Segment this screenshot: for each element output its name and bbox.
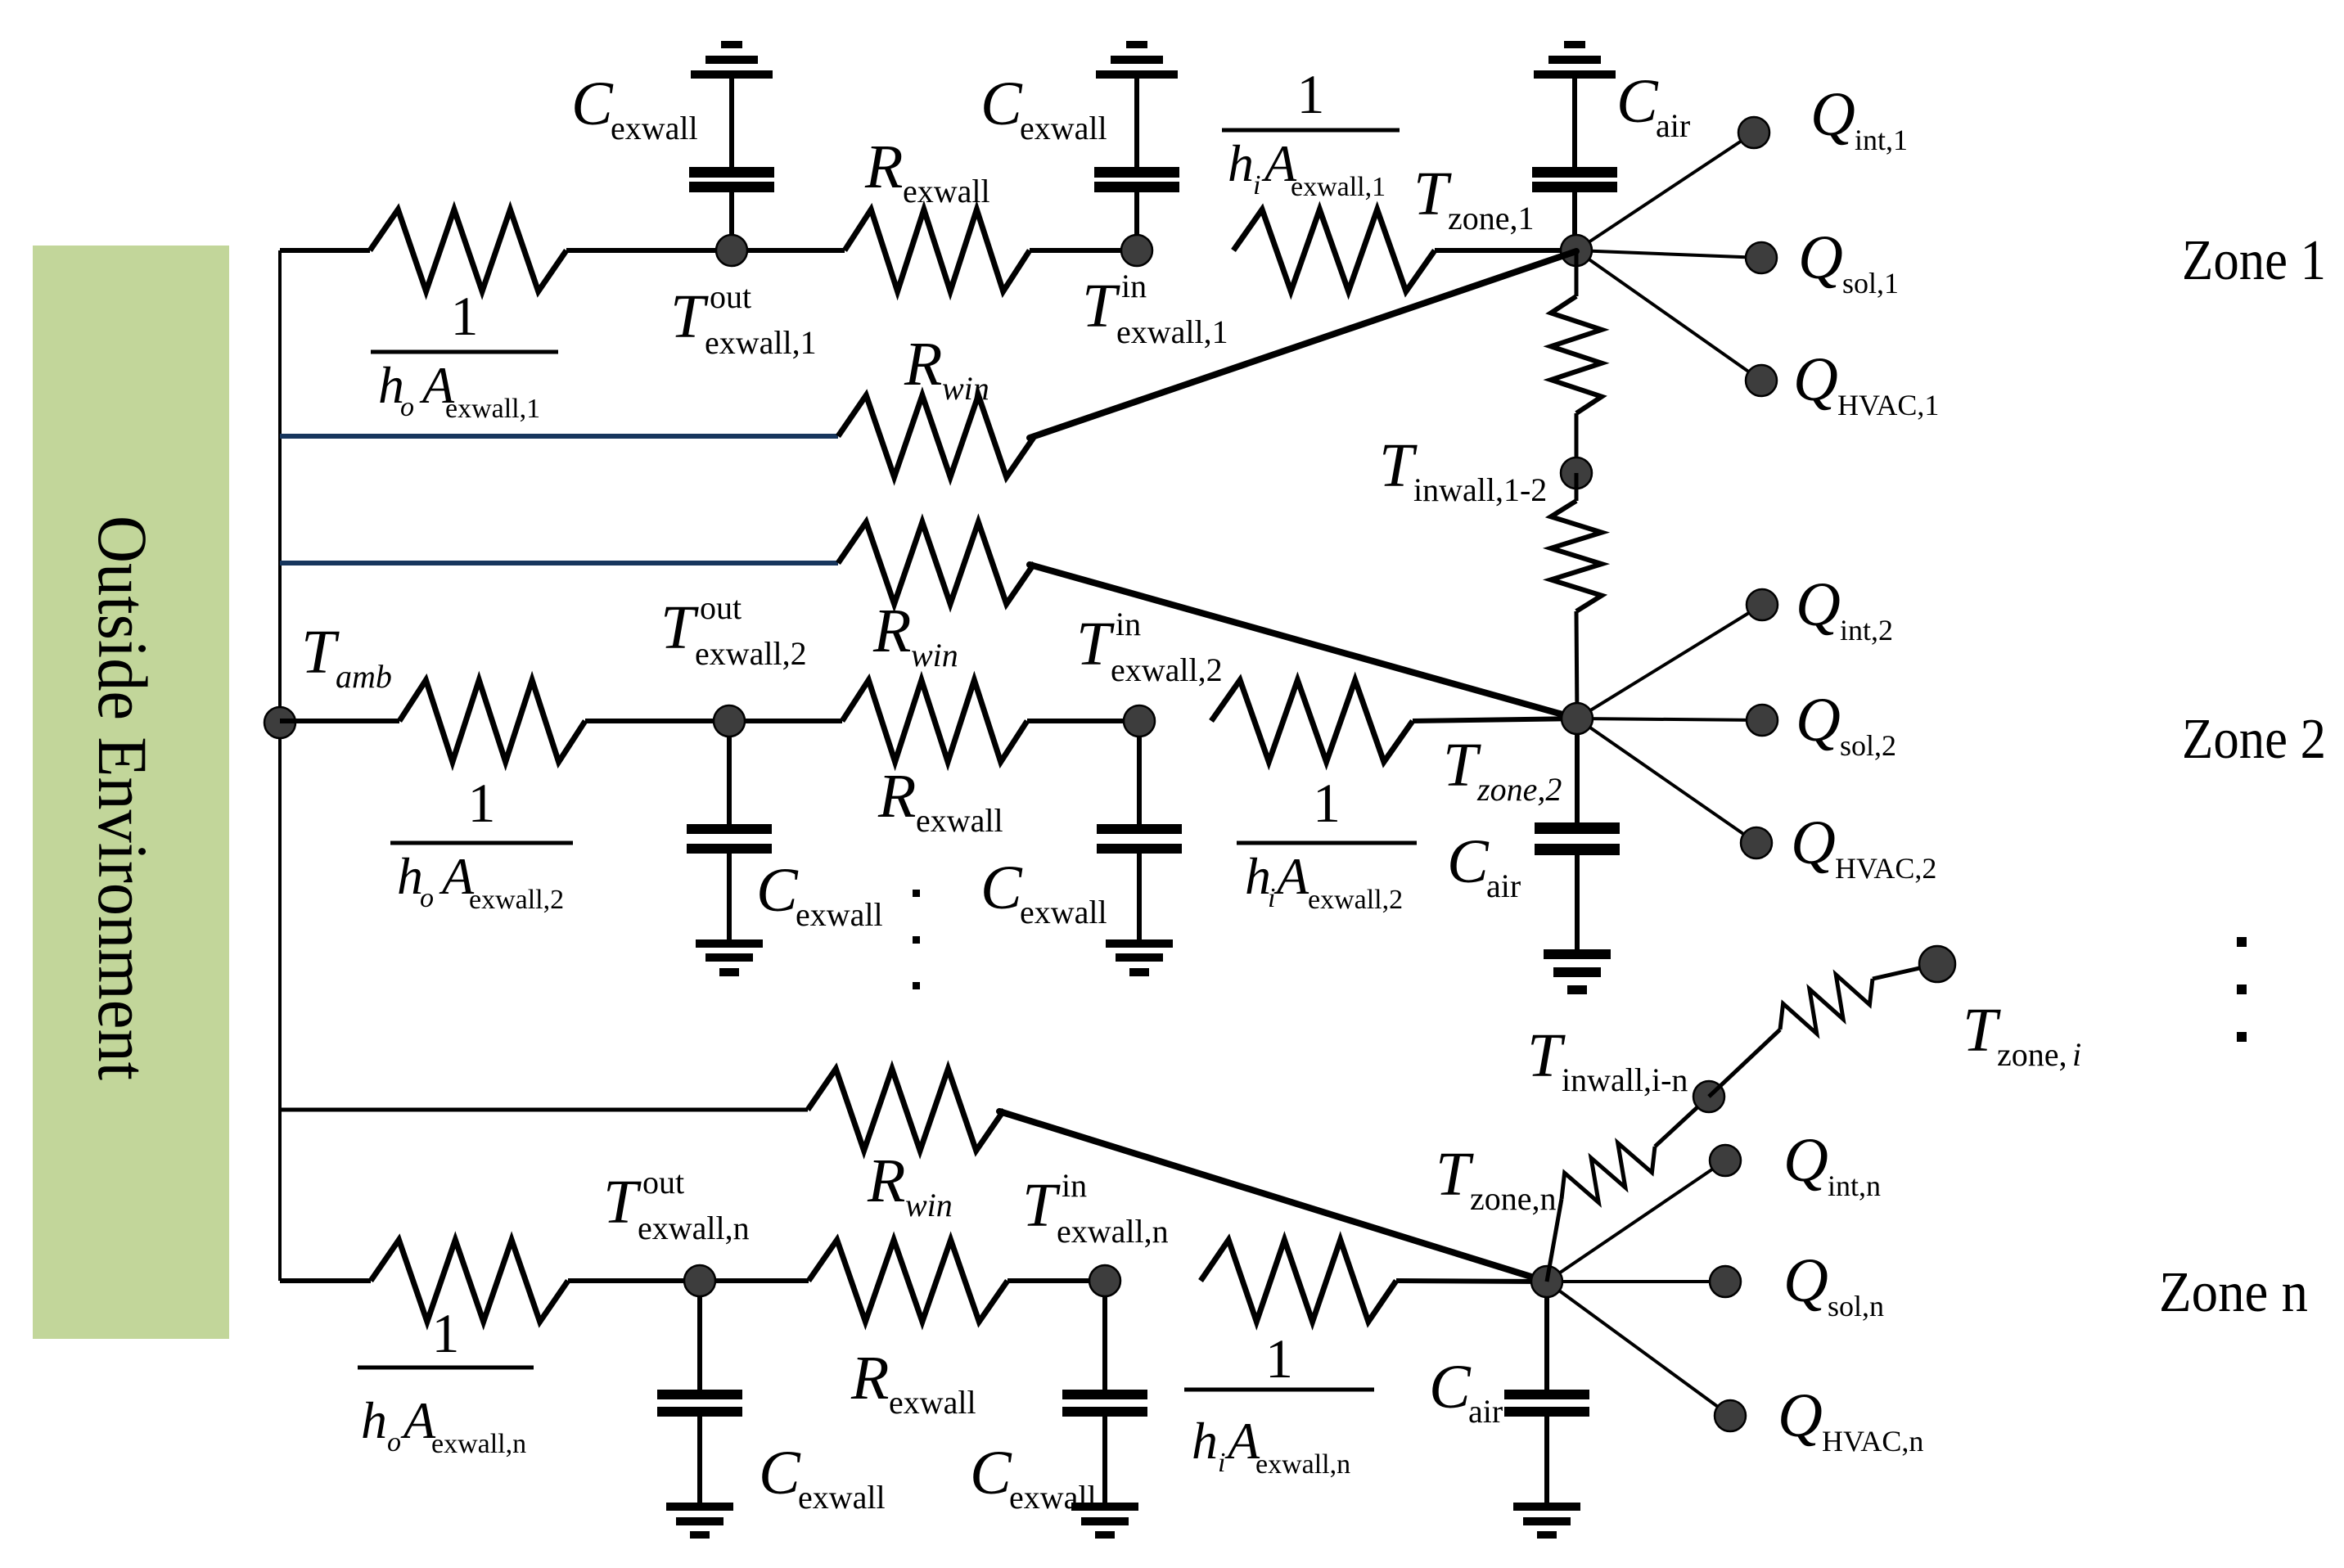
svg-text:out: out (700, 589, 742, 626)
node T_inwall,i-n (1693, 1081, 1724, 1112)
node T_zone,2 (1562, 703, 1593, 734)
resistor R_inwall,i (1780, 975, 1873, 1034)
svg-text:air: air (1656, 107, 1690, 144)
svg-text:h: h (1228, 134, 1254, 192)
outside environment panel (33, 246, 229, 1339)
wire R_inwall,n to node (1655, 1097, 1709, 1147)
label T_exwall,n out (603, 1164, 750, 1246)
label T_exwall,1 in (1082, 268, 1228, 350)
label Zone n (2159, 1261, 2308, 1324)
wire R_win,n to zone n (999, 1111, 1547, 1282)
svg-text:Outside Environment: Outside Environment (83, 516, 162, 1080)
svg-text:T: T (301, 618, 340, 687)
svg-text:inwall,1-2: inwall,1-2 (1413, 471, 1547, 508)
node Q_HVAC,n (1715, 1400, 1746, 1431)
svg-text:C: C (980, 70, 1023, 138)
label Q_sol,n (1783, 1246, 1884, 1322)
resistor 1/hiA,1 (1233, 210, 1435, 291)
resistor 1/hoA,2 (399, 680, 585, 762)
svg-text:R: R (877, 762, 916, 831)
label C_air,2 (1447, 827, 1521, 904)
svg-text:T: T (1413, 160, 1452, 228)
label Q_int,n (1783, 1126, 1881, 1202)
wire to Q_HVAC,1 (1576, 250, 1761, 381)
wire to Q_HVAC,n (1547, 1282, 1730, 1416)
capacitor C_exwall,2b (1097, 721, 1182, 976)
svg-text:T: T (1379, 431, 1418, 500)
label Q_sol,2 (1796, 686, 1896, 762)
svg-text:in: in (1116, 606, 1141, 642)
svg-text:C: C (571, 70, 614, 138)
node T_zone,i (1919, 946, 1955, 982)
outside environment label (83, 516, 162, 1080)
resistor R_inwall,n (1562, 1143, 1655, 1203)
svg-text:HVAC,n: HVAC,n (1822, 1425, 1923, 1458)
wire zone2 a (585, 719, 842, 723)
svg-text:C: C (980, 854, 1023, 922)
svg-text:o: o (420, 883, 434, 913)
svg-text:inwall,i-n: inwall,i-n (1562, 1061, 1688, 1098)
svg-text:T: T (1082, 272, 1120, 340)
label C_air,n (1429, 1353, 1503, 1430)
svg-text:exwall,n: exwall,n (1057, 1213, 1169, 1250)
svg-text:exwall: exwall (798, 1479, 886, 1516)
svg-text:C: C (970, 1439, 1012, 1507)
svg-text:Q: Q (1796, 686, 1841, 755)
svg-text:in: in (1062, 1167, 1087, 1204)
wire inwall down (1576, 473, 1577, 719)
svg-text:1: 1 (1297, 63, 1325, 125)
svg-text:win: win (942, 370, 989, 407)
svg-text:sol,2: sol,2 (1840, 729, 1896, 762)
label 1/hiA,n (1184, 1327, 1374, 1480)
resistor 1/hoA,1 (370, 210, 566, 291)
wire R_win,1 feed (280, 434, 838, 439)
wire zone-n a (568, 1278, 809, 1283)
svg-text:T: T (1443, 731, 1481, 800)
capacitor C_exwall,2a (687, 721, 772, 976)
label T_zone,n (1436, 1140, 1557, 1217)
svg-text:C: C (756, 856, 799, 925)
label T_amb (301, 618, 392, 695)
node Q_int,n (1710, 1145, 1741, 1176)
wire zone2 b (1027, 719, 1139, 723)
label T_inwall,1-2 (1379, 431, 1547, 508)
capacitor C_air,2 (1535, 719, 1620, 994)
wire R_inwall,i to zone i (1873, 964, 1937, 979)
wire zone-n left (280, 1278, 371, 1283)
wire zone1 b (1030, 248, 1137, 253)
svg-text:Q: Q (1778, 1381, 1823, 1450)
resistor 1/hiA,n (1201, 1240, 1396, 1322)
wire zone2 c (1413, 719, 1577, 721)
svg-text:Q: Q (1783, 1126, 1828, 1195)
svg-text:exwall: exwall (1020, 894, 1107, 930)
resistor R_exwall,n (809, 1240, 1007, 1322)
wire to Q_int,n (1547, 1160, 1725, 1282)
node Q_HVAC,2 (1741, 827, 1772, 858)
svg-text:exwall: exwall (889, 1384, 976, 1421)
wire R_win,1 to zone1 (1030, 251, 1576, 438)
label 1/hoA,2 (390, 772, 573, 915)
svg-text:C: C (1447, 827, 1490, 896)
label T_inwall,i-n (1527, 1021, 1688, 1098)
label C_exwall,nb (970, 1439, 1097, 1516)
svg-text:out: out (710, 278, 751, 315)
wire zone1 c (1435, 248, 1576, 253)
svg-text:1: 1 (432, 1302, 460, 1364)
capacitor C_exwall,1a (689, 41, 774, 250)
svg-text:o: o (400, 392, 414, 422)
wire zone1 node down (1575, 250, 1579, 296)
node Q_int,2 (1747, 589, 1778, 620)
svg-text:in: in (1121, 268, 1147, 304)
node T_zone,1 (1561, 235, 1592, 266)
label R_win,n (867, 1147, 953, 1223)
svg-text:T: T (1022, 1171, 1061, 1240)
svg-text:Q: Q (1783, 1246, 1828, 1315)
svg-text:int,1: int,1 (1855, 124, 1908, 156)
svg-text:T: T (1436, 1140, 1474, 1209)
svg-text:R: R (850, 1344, 889, 1413)
capacitor C_exwall,na (657, 1281, 742, 1539)
svg-text:exwall,n: exwall,n (638, 1210, 750, 1246)
wire to inwall node (1575, 413, 1579, 473)
label R_exwall,n (850, 1344, 976, 1421)
svg-text:i: i (1218, 1448, 1225, 1478)
node T_exwall,2 out (714, 705, 745, 737)
label 1/hiA,1 (1222, 63, 1400, 202)
wire to Q_sol,2 (1577, 719, 1762, 720)
svg-text:exwall: exwall (1020, 110, 1107, 146)
node Q_sol,1 (1746, 242, 1777, 273)
label 1/hiA,2 (1237, 772, 1417, 915)
wire zone-n b (1007, 1278, 1105, 1283)
wire zone1 a (566, 248, 845, 253)
node T_zone,n (1531, 1266, 1562, 1297)
svg-text:R: R (867, 1147, 905, 1215)
svg-text:R: R (872, 597, 911, 665)
label Zone 1 (2182, 229, 2326, 292)
node T_exwall,n out (684, 1265, 715, 1296)
svg-text:h: h (361, 1391, 387, 1449)
resistor 1/hiA,2 (1211, 680, 1413, 762)
wire inwall to R_inwall,i (1709, 1030, 1780, 1097)
svg-text:exwall,2: exwall,2 (1308, 885, 1403, 915)
svg-text:amb: amb (336, 658, 392, 695)
svg-text:exwall,1: exwall,1 (445, 394, 540, 424)
wire zone-n to R_inwall,n (1547, 1199, 1562, 1282)
resistor R_exwall,1 (845, 210, 1030, 291)
label T_exwall,n in (1022, 1167, 1169, 1250)
label T_zone,i (1963, 996, 2081, 1073)
svg-text:HVAC,1: HVAC,1 (1837, 389, 1939, 421)
wire to Q_int,1 (1576, 133, 1754, 250)
resistor R_win,2 (838, 522, 1035, 604)
svg-text:exwall,1: exwall,1 (705, 324, 817, 361)
label C_air,1 (1616, 67, 1690, 144)
node T_inwall,1-2 (1561, 457, 1592, 489)
label C_exwall,2a (756, 856, 883, 933)
svg-text:h: h (1192, 1412, 1218, 1470)
svg-text:A: A (1273, 847, 1309, 905)
svg-text:C: C (1429, 1353, 1472, 1422)
label R_win,2 (872, 597, 958, 674)
svg-text:out: out (642, 1164, 684, 1201)
svg-text:i: i (1268, 883, 1275, 913)
svg-text:Zone n: Zone n (2159, 1261, 2308, 1324)
svg-text:1: 1 (468, 772, 496, 834)
svg-text:int,n: int,n (1828, 1169, 1881, 1202)
node T_exwall,2 in (1124, 705, 1155, 737)
wire to Q_HVAC,2 (1577, 719, 1756, 843)
svg-text:exwall: exwall (611, 110, 698, 146)
wire zone2 left (280, 719, 399, 723)
svg-text:R: R (904, 330, 942, 399)
label Q_sol,1 (1798, 223, 1899, 300)
svg-text:C: C (1616, 67, 1659, 136)
svg-text:i: i (2072, 1036, 2081, 1073)
svg-text:C: C (759, 1439, 801, 1507)
node T_exwall,n in (1089, 1265, 1120, 1296)
svg-text:win: win (905, 1187, 953, 1223)
svg-text:exwall,2: exwall,2 (469, 885, 564, 915)
resistor R_inwall,2 (1551, 501, 1602, 611)
svg-text:sol,1: sol,1 (1842, 267, 1899, 300)
label C_exwall,1b (980, 70, 1107, 146)
svg-text:exwall,2: exwall,2 (1111, 651, 1223, 688)
resistor R_exwall,2 (842, 680, 1027, 762)
node T_amb (264, 707, 295, 738)
capacitor C_air,n (1504, 1282, 1589, 1539)
svg-text:T: T (1076, 610, 1115, 678)
label C_exwall,na (759, 1439, 886, 1516)
label T_exwall,1 out (670, 278, 817, 361)
svg-text:T: T (603, 1168, 642, 1237)
capacitor C_air,1 (1532, 41, 1617, 250)
wire ambient bus (278, 250, 282, 1281)
svg-text:exwall: exwall (796, 896, 883, 933)
dots right (2237, 937, 2247, 1042)
wire to Q_int,2 (1577, 605, 1762, 719)
resistor R_win,1 (838, 395, 1035, 477)
label Q_HVAC,2 (1791, 809, 1936, 885)
label Q_HVAC,1 (1793, 345, 1939, 421)
wire R_win,2 feed (280, 561, 838, 565)
label Q_int,2 (1796, 570, 1893, 647)
svg-text:air: air (1468, 1393, 1503, 1430)
label T_zone,1 (1413, 160, 1535, 237)
svg-text:Q: Q (1798, 223, 1843, 292)
wire to Q_sol,1 (1576, 250, 1761, 258)
label 1/hoA,1 (371, 285, 558, 424)
wire to Q_sol,n (1547, 1280, 1725, 1283)
svg-text:T: T (1963, 996, 2001, 1065)
svg-text:1: 1 (451, 285, 479, 347)
node Q_sol,2 (1747, 705, 1778, 736)
svg-text:zone,1: zone,1 (1448, 200, 1535, 237)
capacitor C_exwall,nb (1062, 1281, 1147, 1539)
svg-text:Q: Q (1810, 80, 1855, 149)
svg-text:exwall: exwall (1009, 1479, 1097, 1516)
node Q_int,1 (1738, 117, 1769, 148)
label Q_int,1 (1810, 80, 1908, 156)
svg-text:i: i (1253, 170, 1260, 201)
svg-text:1: 1 (1265, 1327, 1293, 1390)
label R_win,1 (904, 330, 989, 407)
label T_zone,2 (1443, 731, 1562, 808)
svg-text:HVAC,2: HVAC,2 (1835, 852, 1936, 885)
svg-text:T: T (1527, 1021, 1566, 1090)
label Q_HVAC,n (1778, 1381, 1923, 1458)
label R_exwall,2 (877, 762, 1003, 839)
svg-text:exwall,n: exwall,n (431, 1429, 526, 1459)
svg-text:win: win (911, 637, 958, 674)
svg-text:exwall,2: exwall,2 (695, 635, 807, 672)
node Q_sol,n (1710, 1266, 1741, 1297)
svg-text:exwall,n: exwall,n (1255, 1449, 1350, 1480)
svg-text:zone,: zone, (1997, 1036, 2067, 1073)
node T_exwall,1 out (716, 235, 747, 266)
node T_exwall,1 in (1121, 235, 1152, 266)
node Q_HVAC,1 (1746, 365, 1777, 396)
label 1/hoA,n (358, 1302, 534, 1459)
svg-text:zone,n: zone,n (1470, 1180, 1557, 1217)
resistor R_inwall,1 (1551, 296, 1602, 413)
svg-text:T: T (670, 282, 709, 351)
svg-text:sol,n: sol,n (1828, 1290, 1884, 1322)
label R_exwall,1 (864, 133, 990, 210)
svg-text:o: o (387, 1427, 401, 1458)
svg-text:exwall: exwall (903, 173, 990, 210)
label C_exwall,1a (571, 70, 698, 146)
svg-text:Zone 1: Zone 1 (2182, 229, 2326, 292)
svg-text:exwall,1: exwall,1 (1116, 313, 1228, 350)
capacitor C_exwall,1b (1094, 41, 1179, 250)
label T_exwall,2 out (660, 589, 807, 672)
label Zone 2 (2182, 708, 2326, 771)
resistor R_win,n (808, 1069, 1004, 1151)
label T_exwall,2 in (1076, 606, 1223, 688)
wire zone1 left (280, 248, 370, 253)
svg-text:exwall: exwall (916, 802, 1003, 839)
wire R_win,n feed (280, 1108, 808, 1112)
svg-text:Q: Q (1793, 345, 1838, 414)
svg-text:T: T (660, 593, 699, 662)
svg-text:Zone 2: Zone 2 (2182, 708, 2326, 771)
svg-text:Q: Q (1791, 809, 1836, 877)
svg-text:1: 1 (1313, 772, 1341, 834)
resistor 1/hoA,n (371, 1240, 568, 1322)
dots mid (913, 890, 920, 989)
svg-text:exwall,1: exwall,1 (1291, 172, 1386, 202)
svg-text:int,2: int,2 (1840, 614, 1893, 647)
svg-text:Q: Q (1796, 570, 1841, 639)
wire zone-n c (1396, 1281, 1547, 1282)
wire R_win,2 to zone2 (1030, 565, 1577, 719)
svg-text:R: R (864, 133, 903, 201)
svg-text:zone,2: zone,2 (1476, 771, 1562, 808)
svg-text:air: air (1486, 867, 1521, 904)
label C_exwall,2b (980, 854, 1107, 930)
